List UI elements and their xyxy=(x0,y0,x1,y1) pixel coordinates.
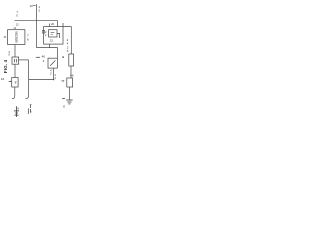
wire U2 top stub xyxy=(49,24,51,27)
wire emitter bus xyxy=(29,79,54,81)
crystal X1 xyxy=(12,57,19,64)
svg-text:6: 6 xyxy=(8,53,10,57)
svg-text:FIG. 4: FIG. 4 xyxy=(3,59,8,73)
crystal X1 marks xyxy=(14,59,16,62)
svg-text:10: 10 xyxy=(30,4,34,8)
svg-text:g: g xyxy=(43,60,45,63)
block U2 inner xyxy=(49,30,57,37)
svg-text:F: F xyxy=(15,81,18,85)
svg-text:0: 0 xyxy=(16,13,18,17)
junction dot emitter xyxy=(53,79,54,80)
svg-text:4: 4 xyxy=(55,76,57,80)
wire X1 to R3 xyxy=(14,64,16,77)
svg-text:E: E xyxy=(63,105,65,109)
wire R1 to R2 xyxy=(70,66,72,78)
svg-text:20: 20 xyxy=(51,22,55,26)
wire Q1 emitter xyxy=(53,68,55,80)
arrow to R3 xyxy=(9,80,12,82)
port stub on U2 left xyxy=(42,30,44,33)
svg-text:40: 40 xyxy=(42,55,46,59)
svg-text:6: 6 xyxy=(27,38,29,42)
svg-text:2: 2 xyxy=(45,33,47,37)
stub above U2 right corner xyxy=(62,23,64,27)
wire R2 to ground xyxy=(69,87,71,100)
arrow label 40 lead xyxy=(36,56,40,58)
wire U2 inner out xyxy=(57,33,60,38)
junction dot node C xyxy=(62,56,64,58)
wire R3 to battery xyxy=(12,87,15,99)
arrow to R2 xyxy=(61,80,64,82)
wire X1 to node B xyxy=(19,59,29,61)
svg-text:DETECTOR: DETECTOR xyxy=(15,31,19,43)
resistor R1 xyxy=(69,54,74,66)
svg-text:22: 22 xyxy=(50,39,54,43)
svg-text:2: 2 xyxy=(38,8,40,12)
ground right xyxy=(66,100,72,104)
svg-text:12: 12 xyxy=(16,22,19,26)
arrow near right ground xyxy=(62,98,65,100)
battery B2 mid marks xyxy=(28,105,31,114)
wire U2 to R1 xyxy=(63,27,71,54)
wire top bus xyxy=(15,21,58,27)
node 10 antenna lead xyxy=(36,4,38,48)
wire U1 bottom xyxy=(14,45,16,58)
resistor R3 xyxy=(12,78,18,88)
battery B1 left xyxy=(14,106,19,117)
wire mid horizontal to Q1 xyxy=(37,48,58,59)
block U2 xyxy=(44,27,63,44)
wire U2 bottom stub xyxy=(49,44,51,48)
label inside U2 inner xyxy=(51,32,55,34)
svg-text:34: 34 xyxy=(4,36,7,39)
svg-text:16: 16 xyxy=(1,77,5,81)
svg-text:6: 6 xyxy=(67,49,69,53)
transistor Q1 box xyxy=(48,58,57,68)
svg-text:6: 6 xyxy=(17,106,19,110)
arrow label 10 lead xyxy=(33,5,36,7)
block U1 xyxy=(8,30,25,45)
Q1 diagonal xyxy=(50,60,55,65)
wire node B vertical xyxy=(26,60,29,99)
svg-text:46: 46 xyxy=(70,74,74,78)
svg-text:2: 2 xyxy=(50,72,52,76)
resistor R2 xyxy=(67,78,73,87)
